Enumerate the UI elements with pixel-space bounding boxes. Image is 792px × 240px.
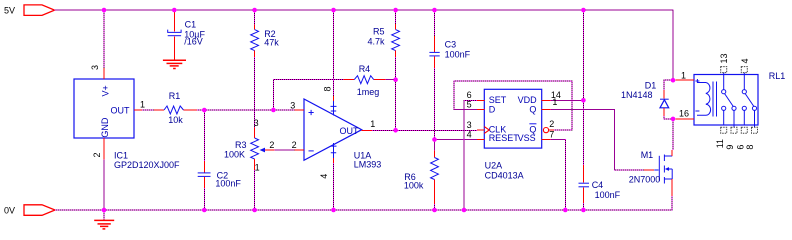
svg-text:C3: C3 [445, 39, 457, 49]
svg-text:5: 5 [467, 99, 472, 109]
C4 reference label [592, 180, 604, 190]
C2 value label [215, 179, 241, 189]
RL1 pin 13 number [719, 53, 729, 63]
svg-text:1: 1 [681, 70, 686, 80]
wire op-amp pin8 drop [333, 10, 335, 96]
U2A pin 3 lead (CLK) [477, 129, 484, 131]
junction bottom rail at IC1 ground [102, 208, 107, 213]
wire R1 to op-amp plus input [197, 109, 295, 111]
op-amp pin 4 stub [331, 143, 337, 163]
R6 value label [404, 181, 424, 191]
node 0V label [4, 205, 15, 215]
R1 value label [168, 115, 183, 125]
wire R4 right link [385, 79, 395, 81]
svg-text:2: 2 [269, 140, 274, 150]
junction top rail at R5 [393, 8, 398, 13]
svg-text:M1: M1 [641, 150, 654, 160]
svg-text:OUT: OUT [340, 126, 360, 136]
wire D1 top branch [664, 80, 673, 90]
U2A pin 14 lead (VDD) [542, 99, 551, 101]
U2A pin 2 bubble and lead (Qbar) [543, 128, 554, 133]
U2A pin 7 number [549, 129, 554, 139]
svg-text:9: 9 [725, 145, 735, 150]
capacitor C1 [168, 11, 181, 60]
wire R6 top link [434, 140, 436, 151]
svg-text:R3: R3 [235, 140, 247, 150]
capacitor C4 [579, 165, 590, 203]
resistor R6 [431, 151, 439, 205]
svg-text:CD4013A: CD4013A [485, 170, 524, 180]
svg-text:RESET: RESET [489, 133, 520, 143]
svg-text:GP2D120XJ00F: GP2D120XJ00F [114, 160, 180, 170]
IC1 pin 1 (OUT) lead [134, 109, 142, 111]
svg-text:3: 3 [290, 100, 295, 110]
svg-text:RL1: RL1 [769, 71, 786, 81]
svg-text:4: 4 [467, 129, 472, 139]
IC1 pin 3 number [90, 65, 100, 70]
svg-text:3: 3 [90, 65, 100, 70]
ground symbol bottom left [94, 220, 114, 229]
U2A pin 3 number [467, 120, 472, 130]
D1 reference label [645, 80, 657, 90]
svg-text:3: 3 [467, 120, 472, 130]
svg-text:100nF: 100nF [595, 190, 621, 200]
RL1 pad 6 [741, 127, 747, 133]
RL1 pad 4 [741, 67, 747, 73]
RL1 pad 9 [731, 127, 737, 133]
svg-text:0V: 0V [4, 205, 15, 215]
wire R5 bottom to output node [395, 57, 397, 130]
junction bottom rail at C4 [581, 208, 586, 213]
U2A pin 5 number [467, 99, 472, 109]
M1 reference label [641, 150, 654, 160]
wire D1 bottom branch [664, 116, 673, 119]
IC1 sensor box [74, 79, 134, 138]
R5 reference label [373, 27, 385, 37]
svg-text:100k: 100k [404, 181, 424, 191]
svg-text:IC1: IC1 [114, 150, 128, 160]
junction top rail at C1 [172, 8, 177, 13]
U2A pin 6 lead (SET) [477, 99, 484, 101]
C3 reference label [445, 39, 457, 49]
junction D1 top [671, 78, 676, 83]
RL1 pin 8 number [745, 145, 755, 150]
relay RL1 box [694, 75, 758, 126]
C3 value label [445, 50, 471, 60]
wire 5V top rail [55, 10, 673, 80]
svg-text:R1: R1 [169, 91, 181, 101]
svg-text:2N7000: 2N7000 [629, 174, 661, 184]
junction top rail at C3 [432, 8, 437, 13]
junction bottom rail at SET net [462, 208, 467, 213]
svg-text:13: 13 [719, 53, 729, 63]
junction top rail at pin8 [331, 8, 336, 13]
C4 value label [595, 190, 621, 200]
node 5V label [4, 5, 15, 15]
resistor R4 [343, 76, 385, 84]
wire R6 bottom link [434, 204, 436, 210]
wire op-amp pin4 drop [333, 163, 335, 210]
U2A pin 14 number [551, 90, 561, 100]
svg-text:D1: D1 [645, 80, 657, 90]
wire R2 top [254, 10, 256, 25]
svg-text:10k: 10k [168, 115, 183, 125]
svg-text:2: 2 [292, 140, 297, 150]
svg-text:8: 8 [745, 145, 755, 150]
wire IC1 GND drop [103, 160, 105, 211]
RL1 reference label [769, 71, 786, 81]
svg-text:OUT: OUT [111, 105, 131, 115]
U2A reference label [485, 160, 503, 170]
op-amp pin 8 stub [331, 96, 337, 116]
wire C3 bottom to reset net [434, 68, 436, 140]
svg-text:C4: C4 [592, 180, 604, 190]
M1 value label [629, 174, 661, 184]
R6 reference label [404, 172, 416, 182]
svg-text:D: D [489, 104, 496, 114]
svg-text:11: 11 [715, 139, 725, 148]
svg-text:4: 4 [740, 58, 750, 63]
IC1 pin 2 number [92, 152, 102, 157]
R2 reference label [264, 29, 276, 39]
junction out row at C2 [202, 108, 207, 113]
op-amp pin 1 number [370, 119, 375, 129]
wire R3 bottom [254, 170, 256, 210]
svg-text:2: 2 [549, 119, 554, 129]
op-amp pin 8 number [323, 86, 333, 91]
RL1 coil [695, 79, 716, 117]
RL1 pad 11 [721, 127, 727, 133]
junction top rail at IC1 [102, 8, 107, 13]
resistor R5 [392, 24, 400, 57]
RL1 pad 8 [752, 127, 758, 133]
flip-flop U2A box [484, 89, 541, 148]
svg-text:1N4148: 1N4148 [621, 90, 653, 100]
junction top rail at VDD [581, 8, 586, 13]
svg-text:V+: V+ [101, 85, 111, 96]
junction R4-R5 [393, 77, 398, 82]
junction bottom rail at C2 [202, 208, 207, 213]
RL1 pad 13 [721, 67, 727, 73]
RL1 pin 9 number [725, 145, 735, 150]
op-amp pin 4 number [319, 174, 329, 179]
RL1 pin 4 number [740, 58, 750, 63]
wire VSS to ground [551, 140, 566, 211]
R4 value label [357, 87, 380, 97]
svg-text:8: 8 [323, 86, 333, 91]
IC1 pin 2 lead [103, 138, 105, 160]
junction bottom rail at VSS [563, 208, 568, 213]
potentiometer R3 [251, 128, 275, 171]
connector 5V [24, 5, 55, 16]
U2A pin 4 lead (RESET) [477, 139, 484, 141]
svg-text:1: 1 [140, 99, 145, 109]
IC1 pin 1 number [140, 99, 145, 109]
IC1 pin 3 lead [103, 68, 105, 79]
resistor R2 [251, 25, 259, 58]
IC1 reference label [114, 150, 128, 160]
RL1 pin 16 number [679, 108, 689, 118]
wire R5 top [395, 10, 397, 24]
svg-text:100nF: 100nF [445, 50, 471, 60]
svg-text:U2A: U2A [485, 160, 503, 170]
junction out row at R4 riser [271, 108, 276, 113]
resistor R1 [154, 106, 197, 114]
svg-text:VSS: VSS [518, 133, 536, 143]
R5 value label [367, 37, 385, 47]
svg-text:4.7k: 4.7k [367, 37, 385, 47]
M1 gate lead [644, 169, 654, 171]
mosfet M1 [654, 150, 672, 196]
svg-text:2: 2 [92, 152, 102, 157]
wire C3 top [434, 10, 436, 36]
svg-text:1: 1 [552, 97, 557, 107]
U1A reference label [354, 150, 372, 160]
wire relay pin16 to M1 drain [672, 119, 674, 150]
RL1 pin 1 lead [676, 79, 695, 81]
R3 pin 1 number [255, 163, 260, 173]
diode D1 [660, 90, 669, 116]
R3 reference label [235, 140, 247, 150]
RL1 pin 11 number [715, 139, 725, 148]
svg-text:7: 7 [549, 129, 554, 139]
R3 value label [224, 150, 245, 160]
junction reset net at C3-R6 [432, 137, 437, 142]
junction D1 bottom [671, 117, 676, 122]
wire C4 bottom [582, 203, 584, 210]
U2A pin 1 lead (Q) [542, 108, 551, 110]
svg-text:C1: C1 [185, 20, 197, 30]
junction top rail at R2 [252, 8, 257, 13]
svg-text:GND: GND [100, 117, 110, 138]
wire Q to M1 gate [551, 109, 644, 170]
U2A pin 2 number [549, 119, 554, 129]
wire op-amp output to CLK [372, 129, 477, 131]
wire C2 drop [203, 110, 205, 161]
wire Qbar to D feedback loop [454, 81, 572, 130]
wire sensor out to R1 [142, 109, 154, 111]
U2A pin 5 lead (D) [477, 108, 484, 110]
svg-text:16: 16 [679, 108, 689, 118]
wire VDD link [551, 99, 584, 101]
RL1 contact switch 2 [742, 73, 756, 128]
svg-text:3: 3 [254, 118, 259, 128]
C2 reference label [217, 170, 229, 180]
wire R4 riser [273, 80, 343, 110]
U1A value label [354, 160, 382, 170]
RL1 pin 6 number [735, 145, 745, 150]
U2A pin 6 number [467, 90, 472, 100]
wire R2 to R3 [254, 57, 256, 128]
svg-text:Q: Q [529, 104, 536, 114]
C1 reference label [185, 20, 197, 30]
capacitor C2 [198, 161, 211, 188]
wire 0V bottom rail [55, 196, 672, 210]
junction bottom rail at pin4 [331, 208, 336, 213]
U2A value label [485, 170, 524, 180]
R3 pin 2 number [269, 140, 274, 150]
svg-text:/16V: /16V [184, 37, 203, 47]
R2 value label [264, 37, 279, 47]
svg-text:1meg: 1meg [357, 87, 380, 97]
svg-text:1: 1 [370, 119, 375, 129]
junction VDD net [581, 98, 586, 103]
RL1 contact switch 1 [722, 73, 737, 128]
U2A pin 7 lead (VSS) [542, 139, 551, 141]
op-amp pin 2 number [292, 140, 297, 150]
junction output node at R5 [393, 128, 398, 133]
RL1 pin 16 lead [676, 118, 695, 120]
svg-text:47k: 47k [264, 37, 279, 47]
svg-text:100K: 100K [224, 150, 245, 160]
svg-text:R5: R5 [373, 27, 385, 37]
ground symbol under C1 [163, 60, 186, 68]
op-amp pin 1 lead [362, 129, 372, 131]
svg-text:5V: 5V [4, 5, 15, 15]
wire ground stub bottom [103, 210, 105, 220]
C1 value label [184, 30, 205, 47]
connector 0V [24, 205, 55, 216]
D1 value label [621, 90, 653, 100]
wire VDD drop and C4 [582, 10, 584, 165]
U2A pin 1 number [552, 97, 557, 107]
junction bottom rail at R6 [432, 208, 437, 213]
wire SET to ground [464, 100, 477, 210]
capacitor C3 [429, 36, 439, 68]
R3 pin 3 number [254, 118, 259, 128]
op-amp pin 3 lead [295, 109, 305, 111]
U2A pin 4 number [467, 129, 472, 139]
junction bottom rail at R3 [252, 208, 257, 213]
svg-text:R4: R4 [359, 64, 371, 74]
svg-text:1: 1 [255, 163, 260, 173]
svg-text:100nF: 100nF [215, 179, 241, 189]
svg-text:6: 6 [735, 145, 745, 150]
IC1 value label [114, 160, 180, 170]
wire reset net [435, 139, 478, 141]
svg-text:LM393: LM393 [354, 160, 382, 170]
op-amp pin 2 lead [295, 149, 305, 151]
svg-text:4: 4 [319, 174, 329, 179]
op-amp U1A [304, 99, 362, 160]
op-amp pin 3 number [290, 100, 295, 110]
RL1 pin 1 number [681, 70, 686, 80]
wire R3 wiper to minus input [275, 149, 295, 151]
wire C2 bottom [203, 188, 205, 210]
R4 reference label [359, 64, 371, 74]
R1 reference label [169, 91, 181, 101]
wire IC1 V+ drop [103, 10, 105, 68]
